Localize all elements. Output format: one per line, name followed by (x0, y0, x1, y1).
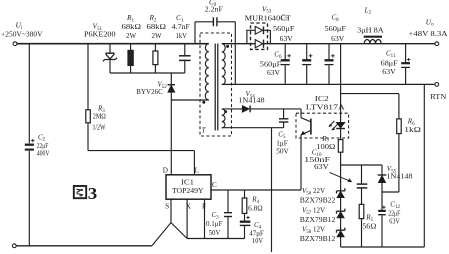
svg-text:22μF: 22μF (388, 210, 400, 218)
svg-text:IC1: IC1 (181, 178, 194, 186)
svg-text:6.8Ω: 6.8Ω (248, 205, 263, 213)
svg-text:2W: 2W (152, 31, 162, 40)
wire node A horizontal (341, 164, 382, 166)
label C3 0.1uF 50V (206, 211, 223, 237)
capacitor C10 150nF (357, 165, 368, 204)
svg-text:10V: 10V (252, 237, 264, 245)
svg-text:TOP249Y: TOP249Y (172, 187, 204, 195)
svg-text:+48V 8.3A: +48V 8.3A (409, 30, 449, 38)
wire top rail (17, 43, 209, 45)
svg-text:L: L (195, 166, 199, 174)
wire RTN drop (423, 84, 425, 247)
svg-text:2.2nF: 2.2nF (205, 6, 223, 14)
resistor R5 56 (359, 204, 364, 247)
input terminal Ui (13, 42, 17, 46)
label R5 56Ohm (362, 214, 376, 231)
label C7 560uF 63V (273, 14, 295, 43)
wire R6 to node (382, 191, 399, 193)
inductor L2 3uH 8A (364, 37, 382, 44)
svg-text:1N4148: 1N4148 (387, 172, 414, 180)
capacitor C2 22uF 400V (25, 139, 35, 150)
transformer core (215, 44, 218, 131)
pin C (212, 181, 217, 189)
svg-text:100Ω: 100Ω (316, 143, 335, 151)
transistor IC2 photo-transistor (301, 109, 311, 190)
svg-text:T: T (202, 126, 207, 135)
svg-text:C11: C11 (386, 49, 396, 58)
label C9 2.2nF (205, 0, 223, 13)
label V57 12V BZX79B12 (300, 206, 336, 223)
label C4 47uF 10V (249, 221, 263, 245)
pin F (202, 203, 206, 211)
label Uo +48V 8.3A (409, 17, 449, 38)
label V56 22V BZX79B22 (300, 187, 336, 204)
zener V56 22V BZX79B22 (337, 188, 345, 211)
label V51 P6KE200 (84, 22, 116, 39)
svg-text:63V: 63V (389, 218, 400, 226)
resistor R3 2M 1/2W (86, 44, 91, 151)
svg-text:BZX79B22: BZX79B22 (300, 197, 336, 205)
label L2 3uH 8A (357, 5, 384, 34)
diode V53 MUR1640CT dual (247, 23, 271, 49)
svg-text:50V: 50V (209, 229, 221, 237)
transformer bias winding (222, 109, 225, 128)
label IC2 LTV817A (306, 95, 346, 112)
svg-text:2MΩ: 2MΩ (93, 113, 106, 121)
svg-text:1μF: 1μF (276, 140, 288, 148)
TVS V51 P6KE200 (103, 44, 117, 73)
svg-text:1N4148: 1N4148 (239, 96, 266, 104)
svg-text:L2: L2 (364, 5, 372, 15)
label V58 12V BZX79B12 (300, 225, 336, 242)
capacitor C5 1uF 50V (279, 109, 288, 128)
wire left drop to C2 (28, 44, 30, 246)
svg-text:63V: 63V (267, 69, 281, 77)
svg-text:BZX79B12: BZX79B12 (300, 216, 336, 224)
svg-text:BYV26C: BYV26C (136, 87, 163, 96)
svg-text:560μF: 560μF (260, 60, 282, 68)
label V55 1N4148 (387, 165, 414, 180)
resistor R7 100 (338, 129, 343, 191)
svg-text:68μF: 68μF (381, 59, 398, 67)
wire L pin feed (88, 151, 194, 175)
svg-text:C12: C12 (390, 201, 400, 210)
resistor R2 68k 2W (153, 44, 158, 73)
diode IC2 LED (329, 121, 345, 130)
svg-text:Uo: Uo (426, 17, 434, 27)
transformer bias phase dot (224, 110, 227, 113)
svg-text:V56 22V: V56 22V (302, 187, 325, 196)
label C1 4.7nF 1kV (172, 13, 190, 40)
capacitor C6 560uF 63V (281, 44, 291, 85)
svg-text:C5: C5 (278, 130, 286, 139)
label C5 1uF 50V (276, 130, 289, 155)
wire snubber bus (110, 72, 185, 74)
capacitor C9 2.2nF Y-cap (195, 17, 235, 84)
svg-text:4.7nF: 4.7nF (172, 22, 190, 31)
diode V55 1N4148 (378, 165, 387, 192)
wire D pin drop (170, 100, 172, 175)
svg-text:P6KE200: P6KE200 (84, 30, 116, 39)
label C11 68uF 63V (381, 49, 398, 76)
svg-text:RTN: RTN (430, 92, 447, 101)
capacitor C12 22uF 63V (378, 192, 386, 247)
op-amp IC1 TOP249Y box (166, 175, 211, 199)
svg-text:R5: R5 (365, 214, 373, 223)
pin L (195, 166, 199, 174)
svg-text:63V: 63V (382, 68, 396, 76)
svg-text:+250V~380V: +250V~380V (1, 30, 43, 39)
label T (202, 126, 207, 135)
svg-text:V58 12V: V58 12V (302, 225, 325, 234)
label R1 68kOhm 2W (122, 13, 142, 40)
svg-text:63V: 63V (331, 35, 345, 43)
svg-text:68kΩ: 68kΩ (122, 22, 142, 31)
zener V58 12V BZX79B12 (337, 228, 345, 247)
wire F pin (204, 199, 206, 238)
label R6 1kOhm (404, 118, 421, 135)
svg-text:1kΩ: 1kΩ (404, 126, 421, 134)
svg-text:C3: C3 (212, 211, 220, 220)
svg-text:22μF: 22μF (37, 142, 49, 150)
transformer T dashed box (200, 33, 232, 136)
wire output rail (222, 43, 435, 45)
svg-text:S: S (165, 203, 169, 211)
diode V52 BYV26C (168, 73, 175, 100)
opto-coupler IC2 LTV817A box (296, 113, 349, 138)
svg-text:C8: C8 (332, 14, 340, 23)
label R2 68kOhm 2W (147, 13, 167, 40)
svg-text:C6: C6 (274, 51, 282, 60)
transformer secondary winding (222, 44, 225, 85)
svg-text:1/2W: 1/2W (93, 124, 106, 132)
pin D (163, 166, 168, 174)
diode V54 1N4148 bias (222, 106, 301, 113)
label RTN (430, 92, 447, 101)
svg-text:50V: 50V (276, 148, 289, 156)
svg-text:IC2: IC2 (315, 95, 330, 103)
svg-text:2W: 2W (126, 31, 136, 40)
capacitor C3 0.1uF 50V (224, 190, 232, 239)
terminal output Uo (435, 42, 439, 46)
svg-text:560μF: 560μF (273, 25, 295, 33)
svg-text:63V: 63V (280, 35, 294, 43)
label C8 560uF 63V (325, 14, 347, 43)
label C12 22uF 63V (388, 201, 400, 226)
wire source bus (187, 238, 245, 240)
label R7 100Ohm (316, 135, 335, 151)
svg-text:3: 3 (88, 184, 98, 203)
transformer secondary phase dot (226, 45, 229, 48)
transformer primary phase dot (202, 101, 205, 104)
terminal bottom left (12, 244, 16, 248)
terminal RTN (435, 83, 439, 87)
label C6 560uF 63V (260, 51, 282, 77)
svg-text:LTV817A: LTV817A (306, 104, 346, 112)
wire primary bottom (171, 99, 209, 101)
label V53 MUR1640CT (245, 5, 292, 22)
label V52 BYV26C (136, 81, 167, 96)
svg-text:BZX79B12: BZX79B12 (300, 235, 336, 243)
svg-text:63V: 63V (314, 163, 329, 171)
capacitor C1 4.7nF 1kV (179, 44, 191, 73)
capacitor C7 560uF 63V (302, 44, 312, 85)
label R4 6.8Ohm (248, 196, 263, 213)
wire feedback ground bus (341, 246, 425, 248)
wire line B to R6 (341, 93, 399, 95)
wire bias return drop (271, 128, 273, 252)
svg-text:68kΩ: 68kΩ (147, 22, 167, 31)
zener V57 12V BZX79B12 (337, 209, 345, 231)
wire C pin (211, 189, 301, 191)
wire output ground bus (222, 83, 435, 85)
svg-text:D: D (163, 166, 168, 174)
label C10 150nF 63V with leader arrow (304, 149, 330, 171)
svg-text:1kV: 1kV (176, 31, 188, 40)
label R3 2MOhm 1/2W (93, 105, 106, 132)
svg-text:V57 12V: V57 12V (302, 206, 325, 215)
wire X pin (186, 199, 188, 238)
resistor R4 6.8 (242, 190, 247, 221)
svg-text:R4: R4 (251, 196, 259, 205)
svg-text:0.1μF: 0.1μF (206, 220, 223, 228)
wire 48V feed to opto LED (340, 44, 342, 123)
svg-text:56Ω: 56Ω (362, 223, 376, 231)
resistor R6 1k (397, 94, 402, 192)
wire bottom rail (16, 245, 152, 247)
wire S pin to ground diagonals (152, 199, 187, 246)
resistor R1 68k 2W (128, 44, 133, 73)
pin S (165, 203, 169, 211)
label V54 1N4148 (239, 90, 266, 104)
capacitor C8 560uF 63V (325, 44, 335, 85)
capacitor C11 68uF 63V (401, 44, 410, 85)
wire bias return (222, 127, 284, 129)
svg-text:400V: 400V (37, 150, 50, 158)
node Ui label +250V~380V (1, 21, 43, 39)
transformer primary winding (205, 44, 209, 100)
capacitor C4 47uF 10V (240, 216, 251, 239)
figure label 3 (74, 186, 86, 198)
svg-text:560μF: 560μF (325, 25, 347, 33)
label C2 22uF 400V (37, 133, 50, 157)
svg-text:3μH 8A: 3μH 8A (357, 27, 384, 35)
svg-text:C: C (212, 181, 217, 189)
pin X (186, 203, 192, 211)
label IC1 TOP249Y (172, 178, 204, 195)
